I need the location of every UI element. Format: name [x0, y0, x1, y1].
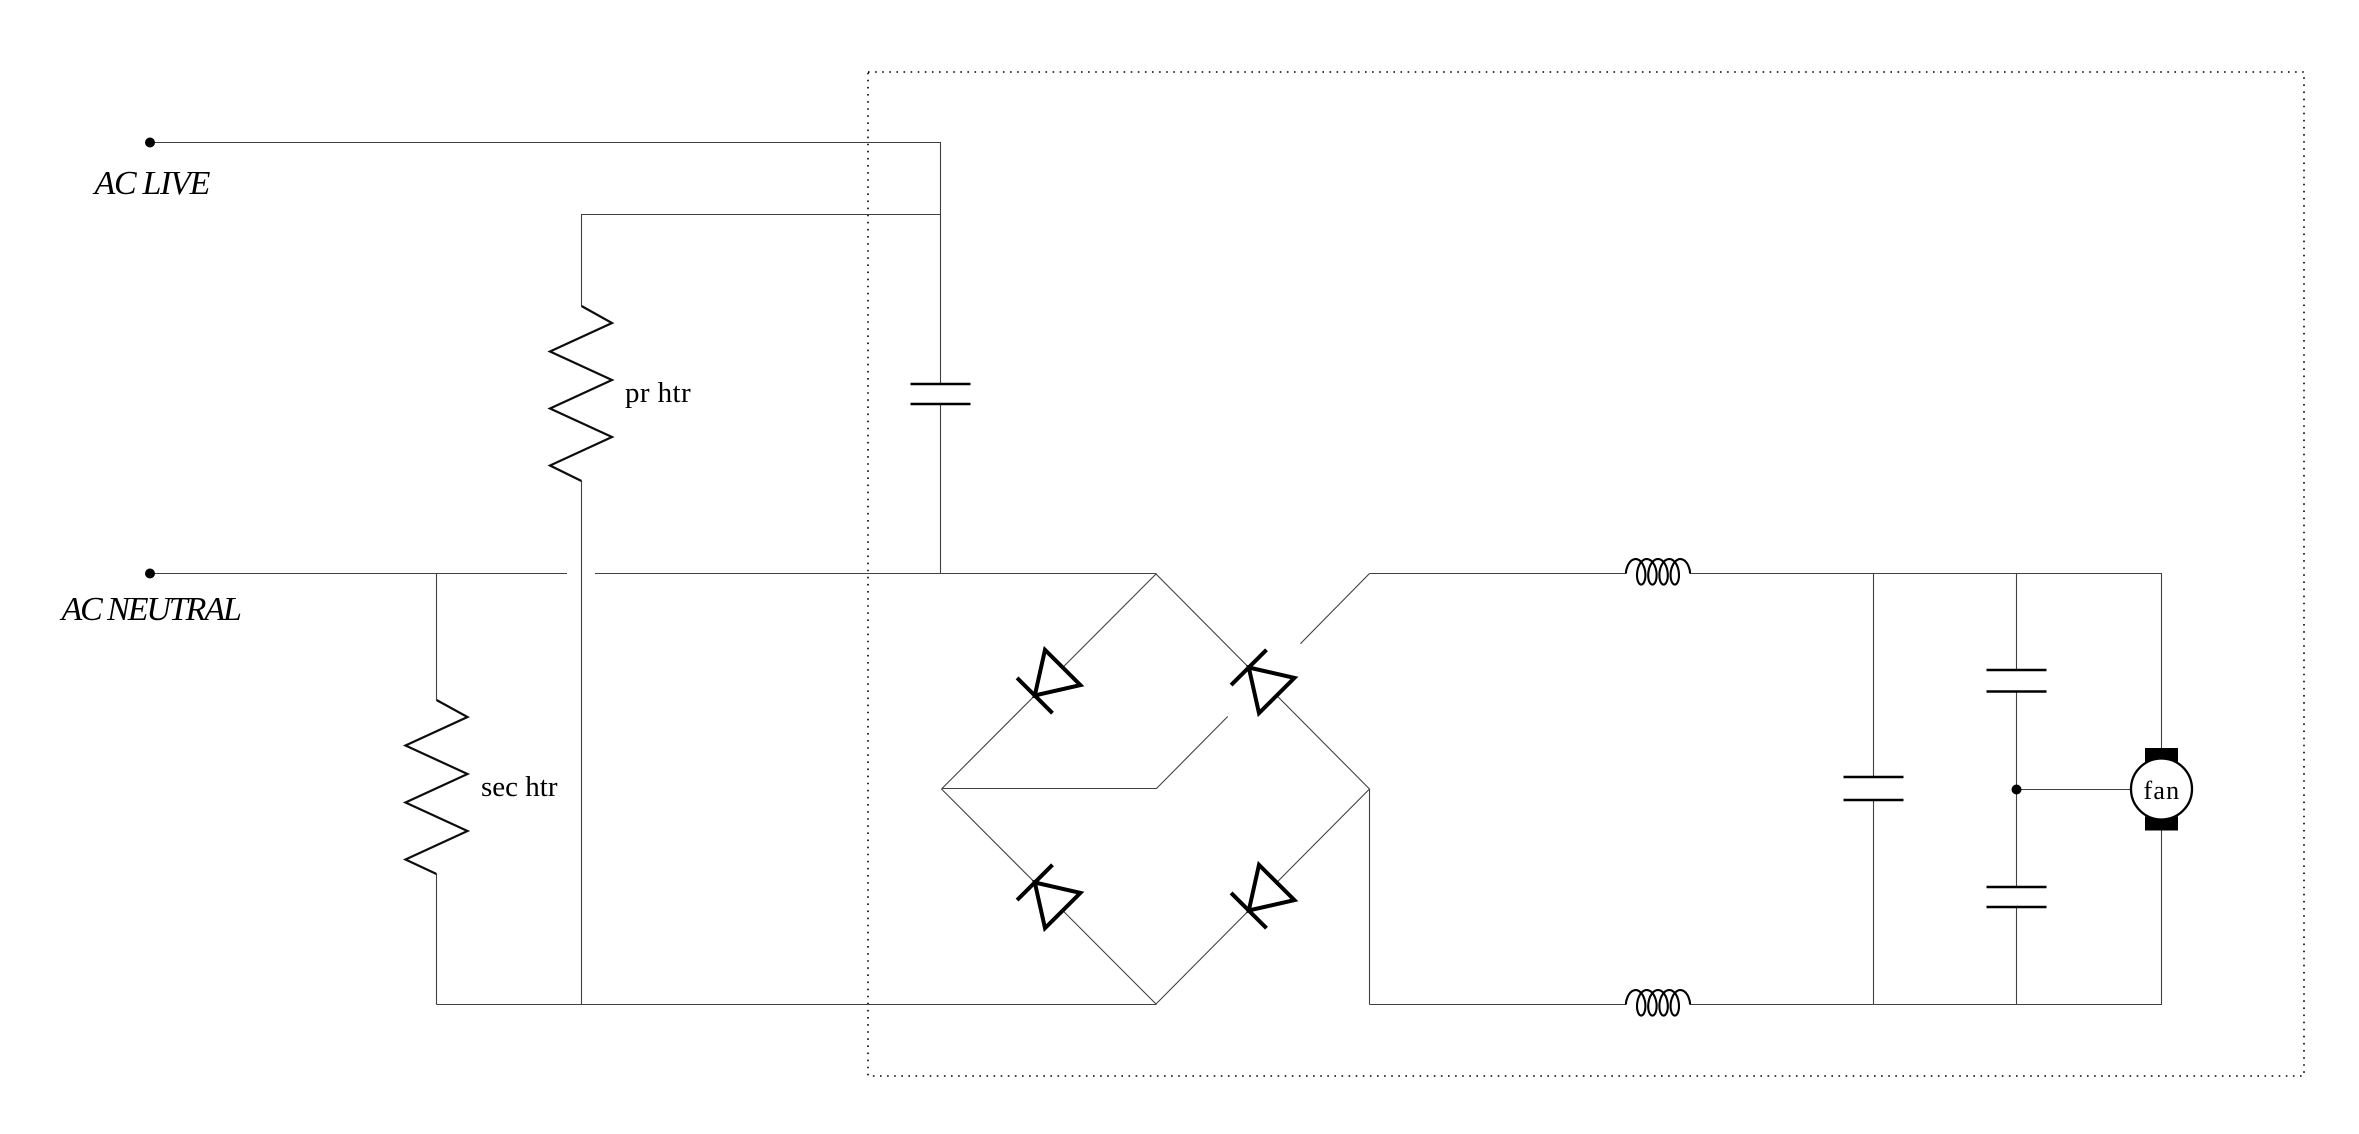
svg-text:AC LIVE: AC LIVE: [93, 165, 211, 202]
svg-text:sec htr: sec htr: [481, 771, 558, 803]
svg-text:AC NEUTRAL: AC NEUTRAL: [60, 591, 241, 628]
svg-text:fan: fan: [2144, 776, 2181, 805]
svg-text:pr htr: pr htr: [625, 377, 691, 409]
